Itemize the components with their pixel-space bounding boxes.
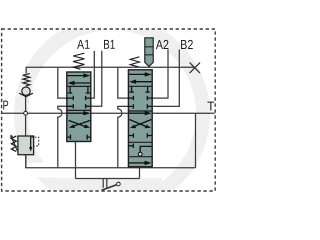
valve V2 divider 3 (128, 141, 152, 143)
label T (207, 102, 214, 111)
valve V2 position-a arrow right (129, 73, 145, 75)
valve V2 neutral blocked stubs top (129, 86, 149, 92)
relief valve pilot dashed line (31, 137, 39, 146)
wire supply carry-over line (26, 67, 194, 73)
label A2 (156, 40, 169, 49)
label A1 (77, 40, 90, 49)
relief valve RV body (18, 136, 34, 155)
wire supply drop to valve 1 (58, 67, 67, 98)
valve V2 position-b cross arrows (129, 120, 151, 127)
valve V1 position-b bottom stubs (67, 135, 91, 140)
valve V1 neutral blocked stubs right (86, 96, 91, 109)
valve V2 position-c path to orifice (140, 146, 152, 152)
valve V2 neutral blocked stubs left (128, 96, 133, 109)
valve V2 body (128, 70, 152, 167)
valve V2 arrowhead bottom (145, 161, 152, 165)
label B1 (104, 40, 115, 49)
wire P-T line between sections (91, 112, 129, 114)
wire A2 riser (152, 50, 168, 99)
valve V2 position-b through arrow (129, 112, 145, 114)
wire valve 1 tank return with hop over P line (58, 106, 67, 168)
label B2 (181, 40, 193, 49)
wire B1 riser (91, 51, 102, 107)
valve V2 arrowhead through (145, 111, 152, 115)
check valve seat (19, 93, 33, 97)
check valve spring (23, 74, 30, 86)
valve V1 cross arrowhead left (69, 124, 75, 128)
relief valve spring (11, 136, 16, 152)
valve V1 position-a arrow left (74, 82, 90, 84)
wire B2 riser (152, 50, 179, 107)
wire check valve branch below ball (25, 97, 27, 112)
valve V1 divider 1 (67, 85, 91, 87)
wire relief valve outlet (25, 155, 27, 168)
valve V1 divider 2 (67, 109, 91, 111)
watermark G ring (14, 16, 210, 212)
valve V2 detent ball circle (138, 152, 142, 156)
lever bracket (103, 179, 107, 188)
valve V1 body (67, 72, 91, 142)
valve V1 neutral blocked stubs left (67, 96, 74, 109)
valve V1 neutral blocked stubs top (68, 86, 90, 93)
valve V1 position-b cross arrows (69, 120, 91, 126)
wire lever linkage line (76, 178, 140, 180)
wire valve 2 tank return with hop over P line (118, 106, 129, 167)
valve V2 cross arrowhead left (130, 125, 136, 129)
valve V1 arrowhead through (83, 111, 90, 115)
valve V1 cross arrowhead right (84, 124, 90, 128)
valve V2 detent plate (145, 38, 153, 67)
valve V1 position-b through arrow (67, 112, 83, 114)
valve V1 arrowhead left a (68, 81, 75, 85)
relief valve flow arrow (30, 137, 32, 148)
wire tank collector line (26, 155, 196, 168)
watermark G slot cut (20, 163, 163, 178)
wire P inlet line (2, 112, 67, 114)
valve V2 position-d arrow right (129, 162, 145, 164)
relief valve adjusting arrow (11, 137, 17, 151)
node P junction (24, 111, 28, 115)
enclosure dashed border (2, 29, 216, 191)
valve V2 cross arrowhead right (145, 125, 151, 129)
valve V2 divider 4 (128, 156, 152, 158)
plugged carry-over port X (190, 63, 200, 74)
wire T drop from T line to collector (195, 113, 197, 168)
valve V2 arrowhead left a (129, 80, 136, 84)
valve V2 return spring (130, 57, 139, 67)
valve V2 detent notches (145, 47, 153, 55)
lever arm (102, 185, 118, 191)
valve V2 position-c left stub (128, 144, 133, 148)
valve V2 divider 2 (128, 110, 152, 112)
valve V1 return spring (73, 53, 84, 69)
lever knob (117, 182, 121, 186)
valve V2 neutral blocked stubs right (147, 96, 152, 109)
wire valve 1 spool link drop (75, 142, 77, 179)
valve V2 position-b side stubs (128, 133, 152, 137)
valve V1 arrowhead right a (83, 73, 90, 77)
wire supply drop to valve 2 (118, 67, 129, 98)
wire node to relief valve (25, 115, 27, 136)
watermark G bar (58, 178, 162, 191)
valve V2 arrowhead right a (145, 72, 152, 76)
wire T outlet line (152, 112, 214, 114)
label P (3, 101, 8, 110)
check valve ball (22, 87, 30, 95)
valve V2 divider 1 (128, 85, 152, 87)
valve V2 position-a arrow left (136, 81, 152, 83)
wire valve 2 spool link drop (139, 167, 141, 179)
valve V1 position-a arrow right (67, 75, 83, 77)
wire A1 riser (91, 51, 95, 98)
